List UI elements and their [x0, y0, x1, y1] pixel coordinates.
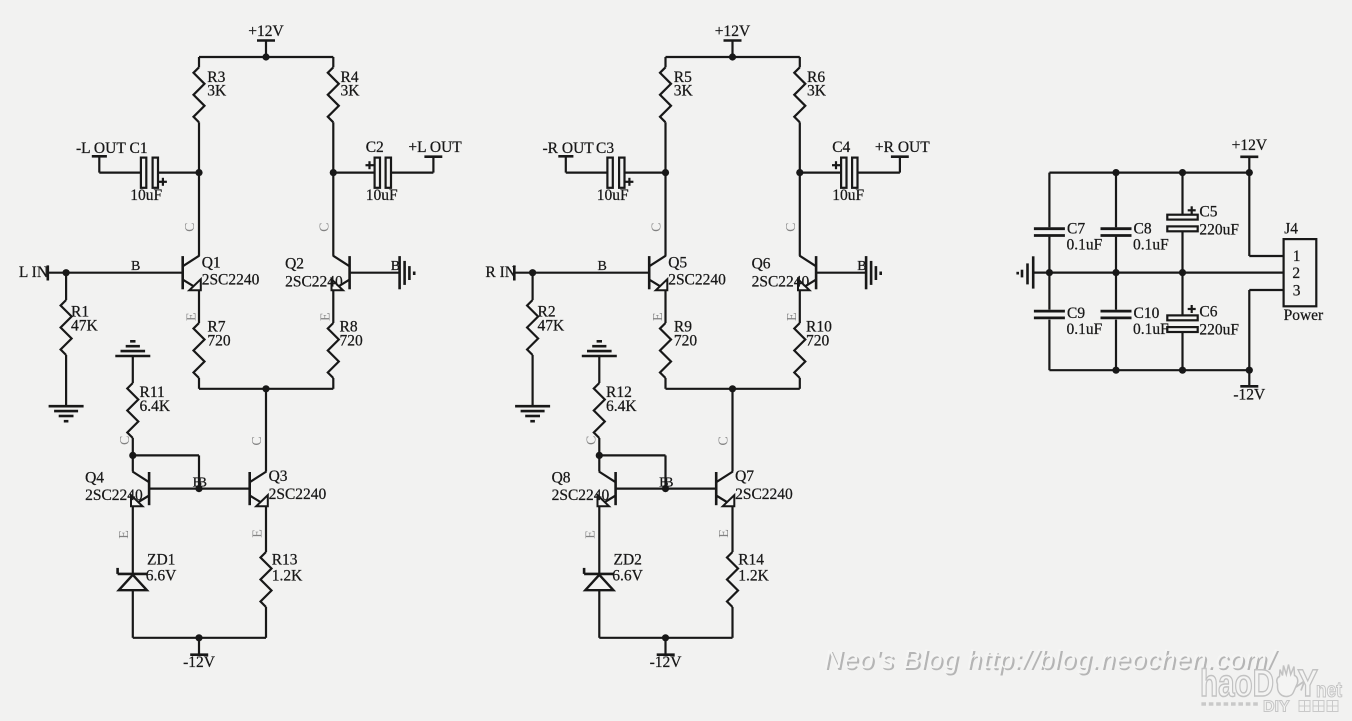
transistor Q6 2SC2240	[752, 256, 817, 291]
wire emitter of Q2	[332, 290, 334, 389]
svg-text:C1: C1	[130, 140, 148, 157]
wire Q8 collector drop	[598, 455, 600, 471]
port -L OUT terminal	[76, 140, 126, 173]
node tail junction	[262, 385, 269, 392]
resistor R3 3K	[194, 67, 228, 122]
node bottom rail j2	[1112, 367, 1119, 374]
svg-text:net: net	[1316, 679, 1342, 702]
svg-text:Q2: Q2	[285, 256, 304, 273]
port L IN terminal	[19, 264, 48, 281]
svg-text:10uF: 10uF	[597, 187, 629, 204]
wire emitter of Q5	[664, 290, 666, 389]
wire emitter Q8 to zener	[598, 506, 600, 574]
svg-text:-L OUT: -L OUT	[76, 140, 126, 157]
wire bottom rail	[133, 637, 266, 639]
svg-text:C6: C6	[1199, 304, 1217, 321]
wire ground to R11	[132, 356, 134, 383]
node top rail j2	[1112, 169, 1119, 176]
wire base of Q6 to ground	[816, 272, 866, 274]
power -12V supply	[1233, 370, 1266, 403]
node input junction	[529, 269, 536, 276]
svg-text:-12V: -12V	[650, 654, 683, 671]
svg-text:3K: 3K	[207, 83, 227, 100]
svg-text:2SC2240: 2SC2240	[85, 487, 143, 504]
wire top rail	[1049, 172, 1249, 174]
wire Q1 collector	[198, 173, 200, 256]
wire J4 pin1	[1249, 173, 1283, 256]
port -R OUT terminal	[543, 140, 595, 173]
ground below R1	[49, 406, 84, 421]
svg-text:R IN: R IN	[485, 264, 516, 281]
svg-text:0.1uF: 0.1uF	[1133, 237, 1169, 254]
wire emitter of Q6	[799, 290, 801, 389]
svg-text:ZD1: ZD1	[147, 552, 175, 569]
svg-text:C2: C2	[366, 139, 384, 156]
wire tail to Q7 collector	[731, 389, 733, 472]
wire collector branch left	[198, 57, 200, 173]
svg-text:2: 2	[1292, 265, 1300, 282]
wire collector-base tie	[133, 455, 199, 488]
svg-text:E: E	[184, 312, 199, 321]
ground above R12	[582, 341, 617, 356]
transistor Q4 2SC2240	[85, 470, 149, 507]
wire collector-base tie	[599, 455, 665, 488]
svg-text:0.1uF: 0.1uF	[1067, 321, 1103, 338]
svg-text:2SC2240: 2SC2240	[269, 486, 327, 503]
wire J4 pin3	[1249, 290, 1283, 370]
wire output to cap	[566, 172, 608, 174]
node Q8 collector junction	[596, 452, 603, 459]
wire collector node to cap	[800, 172, 841, 174]
svg-text:1.2K: 1.2K	[738, 568, 769, 585]
wire output to cap	[99, 172, 141, 174]
resistor R4 3K	[328, 67, 360, 122]
svg-text:C: C	[784, 223, 799, 232]
transistor Q8 2SC2240	[552, 470, 616, 507]
power +12V supply	[1232, 137, 1268, 173]
wire emitter Q3 to R13	[265, 506, 267, 638]
node top rail j4	[1246, 169, 1253, 176]
capacitor C4 10uF	[832, 139, 864, 204]
ground at base of Q6	[866, 256, 881, 289]
svg-text:220uF: 220uF	[1199, 322, 1239, 339]
node bottom rail j4	[1246, 367, 1253, 374]
svg-text:R14: R14	[738, 552, 764, 569]
svg-text:+12V: +12V	[715, 23, 751, 40]
svg-text:E: E	[584, 530, 599, 539]
transistor Q5 2SC2240	[649, 255, 726, 291]
svg-text:720: 720	[674, 332, 698, 349]
transistor Q2 2SC2240	[285, 256, 350, 291]
wire collector branch left	[664, 57, 666, 173]
wire base of Q2 to ground	[350, 272, 400, 274]
svg-text:10uF: 10uF	[130, 187, 162, 204]
svg-text:B: B	[664, 475, 673, 490]
wire collector branch right	[332, 57, 334, 173]
wire Q2 collector	[332, 173, 334, 256]
resistor R10 720	[794, 319, 832, 379]
svg-text:C9: C9	[1067, 305, 1085, 322]
svg-text:1: 1	[1293, 248, 1301, 265]
svg-text:C: C	[250, 436, 265, 445]
ground above R11	[115, 341, 150, 356]
svg-text:Power: Power	[1284, 307, 1324, 324]
wire Q4 collector drop	[132, 455, 134, 471]
svg-text:+12V: +12V	[248, 23, 284, 40]
power -12V right	[650, 638, 683, 671]
wire R11 to node	[132, 438, 134, 455]
node base junction	[662, 485, 669, 492]
zener diode ZD1 6.6V	[118, 552, 177, 591]
node input junction	[63, 269, 70, 276]
svg-text:2SC2240: 2SC2240	[552, 487, 610, 504]
svg-text:2SC2240: 2SC2240	[202, 272, 260, 289]
node C4 junction	[796, 169, 803, 176]
wire bottom rail	[599, 637, 732, 639]
svg-text:C: C	[118, 436, 133, 445]
resistor R11 6.4K	[127, 383, 171, 438]
svg-text:720: 720	[207, 332, 231, 349]
wire tail	[666, 388, 800, 390]
watermark haoDIY logo	[1199, 662, 1351, 721]
capacitor C3 10uF	[596, 140, 633, 204]
svg-text:Q4: Q4	[85, 470, 104, 487]
wire R12 to node	[598, 438, 600, 455]
resistor R7 720	[194, 319, 231, 379]
svg-text:2SC2240: 2SC2240	[752, 273, 810, 290]
svg-text:+L OUT: +L OUT	[408, 139, 462, 156]
node C3 junction	[662, 169, 669, 176]
wire base Q8 to base Q7	[616, 488, 717, 490]
wire input to R1	[65, 273, 67, 407]
node C2 junction	[330, 169, 337, 176]
svg-text:J4: J4	[1284, 221, 1298, 238]
power +12V rail right	[715, 23, 751, 57]
resistor R2 47K	[527, 300, 565, 355]
resistor R8 720	[328, 319, 363, 379]
svg-text:3K: 3K	[807, 83, 827, 100]
node C1 junction	[195, 169, 202, 176]
svg-text:B: B	[131, 259, 140, 274]
resistor R6 3K	[794, 67, 826, 122]
wire column2 segments	[1115, 173, 1117, 371]
svg-text:C5: C5	[1199, 204, 1217, 221]
svg-text:-12V: -12V	[1233, 387, 1266, 404]
power +12V rail left	[248, 23, 284, 57]
wire emitter Q4 to zener	[132, 506, 134, 574]
wire tail	[199, 388, 333, 390]
wire collector branch right	[799, 57, 801, 173]
resistor R13 1.2K	[261, 552, 304, 607]
svg-text:C4: C4	[832, 139, 850, 156]
svg-text:C10: C10	[1134, 305, 1160, 322]
svg-text:0.1uF: 0.1uF	[1067, 237, 1103, 254]
node base junction	[195, 485, 202, 492]
node -12V junction	[195, 634, 202, 641]
node -12V junction	[662, 634, 669, 641]
svg-text:E: E	[651, 312, 666, 321]
wire tail to Q3 collector	[265, 389, 267, 472]
svg-text:C: C	[318, 223, 333, 232]
node top rail j3	[1179, 169, 1186, 176]
capacitor C10 0.1uF	[1101, 305, 1170, 338]
node mid rail j1	[1046, 269, 1053, 276]
svg-text:3: 3	[1293, 283, 1301, 300]
svg-text:220uF: 220uF	[1199, 222, 1239, 239]
svg-text:-R OUT: -R OUT	[543, 140, 595, 157]
wire input to base of Q1	[48, 272, 183, 274]
svg-text:C3: C3	[596, 140, 614, 157]
svg-text:2SC2240: 2SC2240	[668, 272, 726, 289]
svg-text:C7: C7	[1067, 221, 1085, 238]
node mid rail j3	[1179, 269, 1186, 276]
svg-text:C: C	[584, 436, 599, 445]
svg-text:6.4K: 6.4K	[140, 398, 171, 415]
capacitor C6 220uF	[1167, 304, 1239, 339]
capacitor C7 0.1uF	[1034, 221, 1103, 254]
ground below R2	[515, 406, 550, 421]
wire emitter Q7 to R14	[731, 506, 733, 638]
svg-text:Q1: Q1	[202, 255, 221, 272]
svg-text:2SC2240: 2SC2240	[735, 486, 793, 503]
ground at middle rail	[1018, 256, 1033, 288]
svg-text:0.1uF: 0.1uF	[1133, 321, 1169, 338]
capacitor C5 220uF	[1167, 204, 1239, 239]
svg-text:C: C	[183, 223, 198, 232]
capacitor C9 0.1uF	[1034, 305, 1103, 338]
wire bottom rail	[1049, 369, 1249, 371]
svg-text:6.6V: 6.6V	[612, 568, 643, 585]
wire cap to output terminal	[391, 172, 433, 174]
wire column1 segments	[1048, 173, 1050, 371]
wire base Q4 to base Q3	[149, 488, 250, 490]
svg-text:ZD2: ZD2	[614, 552, 642, 569]
wire emitter of Q1	[198, 290, 200, 389]
port R IN terminal	[485, 264, 516, 281]
svg-text:E: E	[318, 312, 333, 321]
node mid rail j2	[1112, 269, 1119, 276]
resistor R5 3K	[660, 67, 694, 122]
wire top rail	[199, 56, 333, 58]
svg-text:720: 720	[340, 332, 364, 349]
svg-text:6.4K: 6.4K	[606, 398, 637, 415]
svg-text:C: C	[649, 223, 664, 232]
port +L OUT terminal	[408, 139, 462, 173]
wire middle rail	[1033, 272, 1283, 274]
port +R OUT terminal	[875, 139, 930, 173]
svg-text:6.6V: 6.6V	[146, 568, 177, 585]
wire cap to collector node	[625, 172, 666, 174]
svg-text:Q7: Q7	[735, 468, 754, 485]
svg-text:Q5: Q5	[668, 255, 687, 272]
capacitor C1 10uF	[130, 140, 167, 204]
svg-text:10uF: 10uF	[366, 187, 398, 204]
node bottom rail j3	[1179, 367, 1186, 374]
svg-text:L IN: L IN	[19, 264, 48, 281]
wire top rail	[666, 56, 800, 58]
svg-text:+R OUT: +R OUT	[875, 139, 930, 156]
svg-text:C: C	[716, 436, 731, 445]
resistor R14 1.2K	[727, 552, 770, 607]
svg-text:47K: 47K	[71, 318, 99, 335]
svg-text:Y: Y	[1298, 663, 1319, 705]
node +12V junction	[262, 53, 269, 60]
node Q4 collector junction	[129, 452, 136, 459]
svg-text:3K: 3K	[674, 83, 694, 100]
watermark blog url	[824, 644, 1276, 675]
svg-text:3K: 3K	[341, 83, 361, 100]
wire collector node to cap	[333, 172, 374, 174]
wire zener to bottom rail	[132, 590, 134, 638]
wire input to base of Q5	[514, 272, 649, 274]
resistor R12 6.4K	[594, 383, 638, 438]
zener diode ZD2 6.6V	[584, 552, 643, 591]
svg-text:DIY: DIY	[1263, 699, 1290, 716]
wire ground to R12	[598, 356, 600, 383]
svg-text:Q6: Q6	[752, 256, 771, 273]
svg-text:R13: R13	[272, 552, 298, 569]
svg-text:1.2K: 1.2K	[272, 568, 303, 585]
svg-text:Q3: Q3	[269, 468, 288, 485]
wire Q6 collector	[799, 173, 801, 256]
svg-text:-12V: -12V	[183, 654, 216, 671]
transistor Q1 2SC2240	[183, 255, 260, 291]
wire column3 segments	[1181, 173, 1183, 371]
capacitor C8 0.1uF	[1101, 221, 1170, 254]
wire cap to output terminal	[858, 172, 900, 174]
svg-text:C8: C8	[1134, 221, 1152, 238]
svg-text:E: E	[251, 529, 266, 538]
connector J4	[1284, 221, 1324, 325]
svg-text:E: E	[717, 529, 732, 538]
svg-text:Q8: Q8	[552, 470, 571, 487]
resistor R9 720	[660, 319, 697, 379]
svg-text:2SC2240: 2SC2240	[285, 273, 343, 290]
svg-text:720: 720	[806, 332, 830, 349]
transistor Q7 2SC2240	[716, 468, 793, 506]
wire cap to collector node	[158, 172, 199, 174]
node tail junction	[729, 385, 736, 392]
wire zener to bottom rail	[598, 590, 600, 638]
transistor Q3 2SC2240	[250, 468, 327, 506]
ground at base of Q2	[400, 256, 415, 289]
power -12V left	[183, 638, 216, 671]
svg-text:B: B	[198, 475, 207, 490]
capacitor C2 10uF	[366, 139, 398, 204]
svg-text:E: E	[785, 312, 800, 321]
wire Q5 collector	[664, 173, 666, 256]
node +12V junction	[729, 53, 736, 60]
svg-text:47K: 47K	[538, 318, 566, 335]
resistor R1 47K	[61, 300, 99, 355]
svg-text:10uF: 10uF	[832, 187, 864, 204]
svg-text:B: B	[598, 259, 607, 274]
svg-text:+12V: +12V	[1232, 137, 1268, 154]
svg-text:E: E	[117, 530, 132, 539]
wire input to R2	[531, 273, 533, 407]
